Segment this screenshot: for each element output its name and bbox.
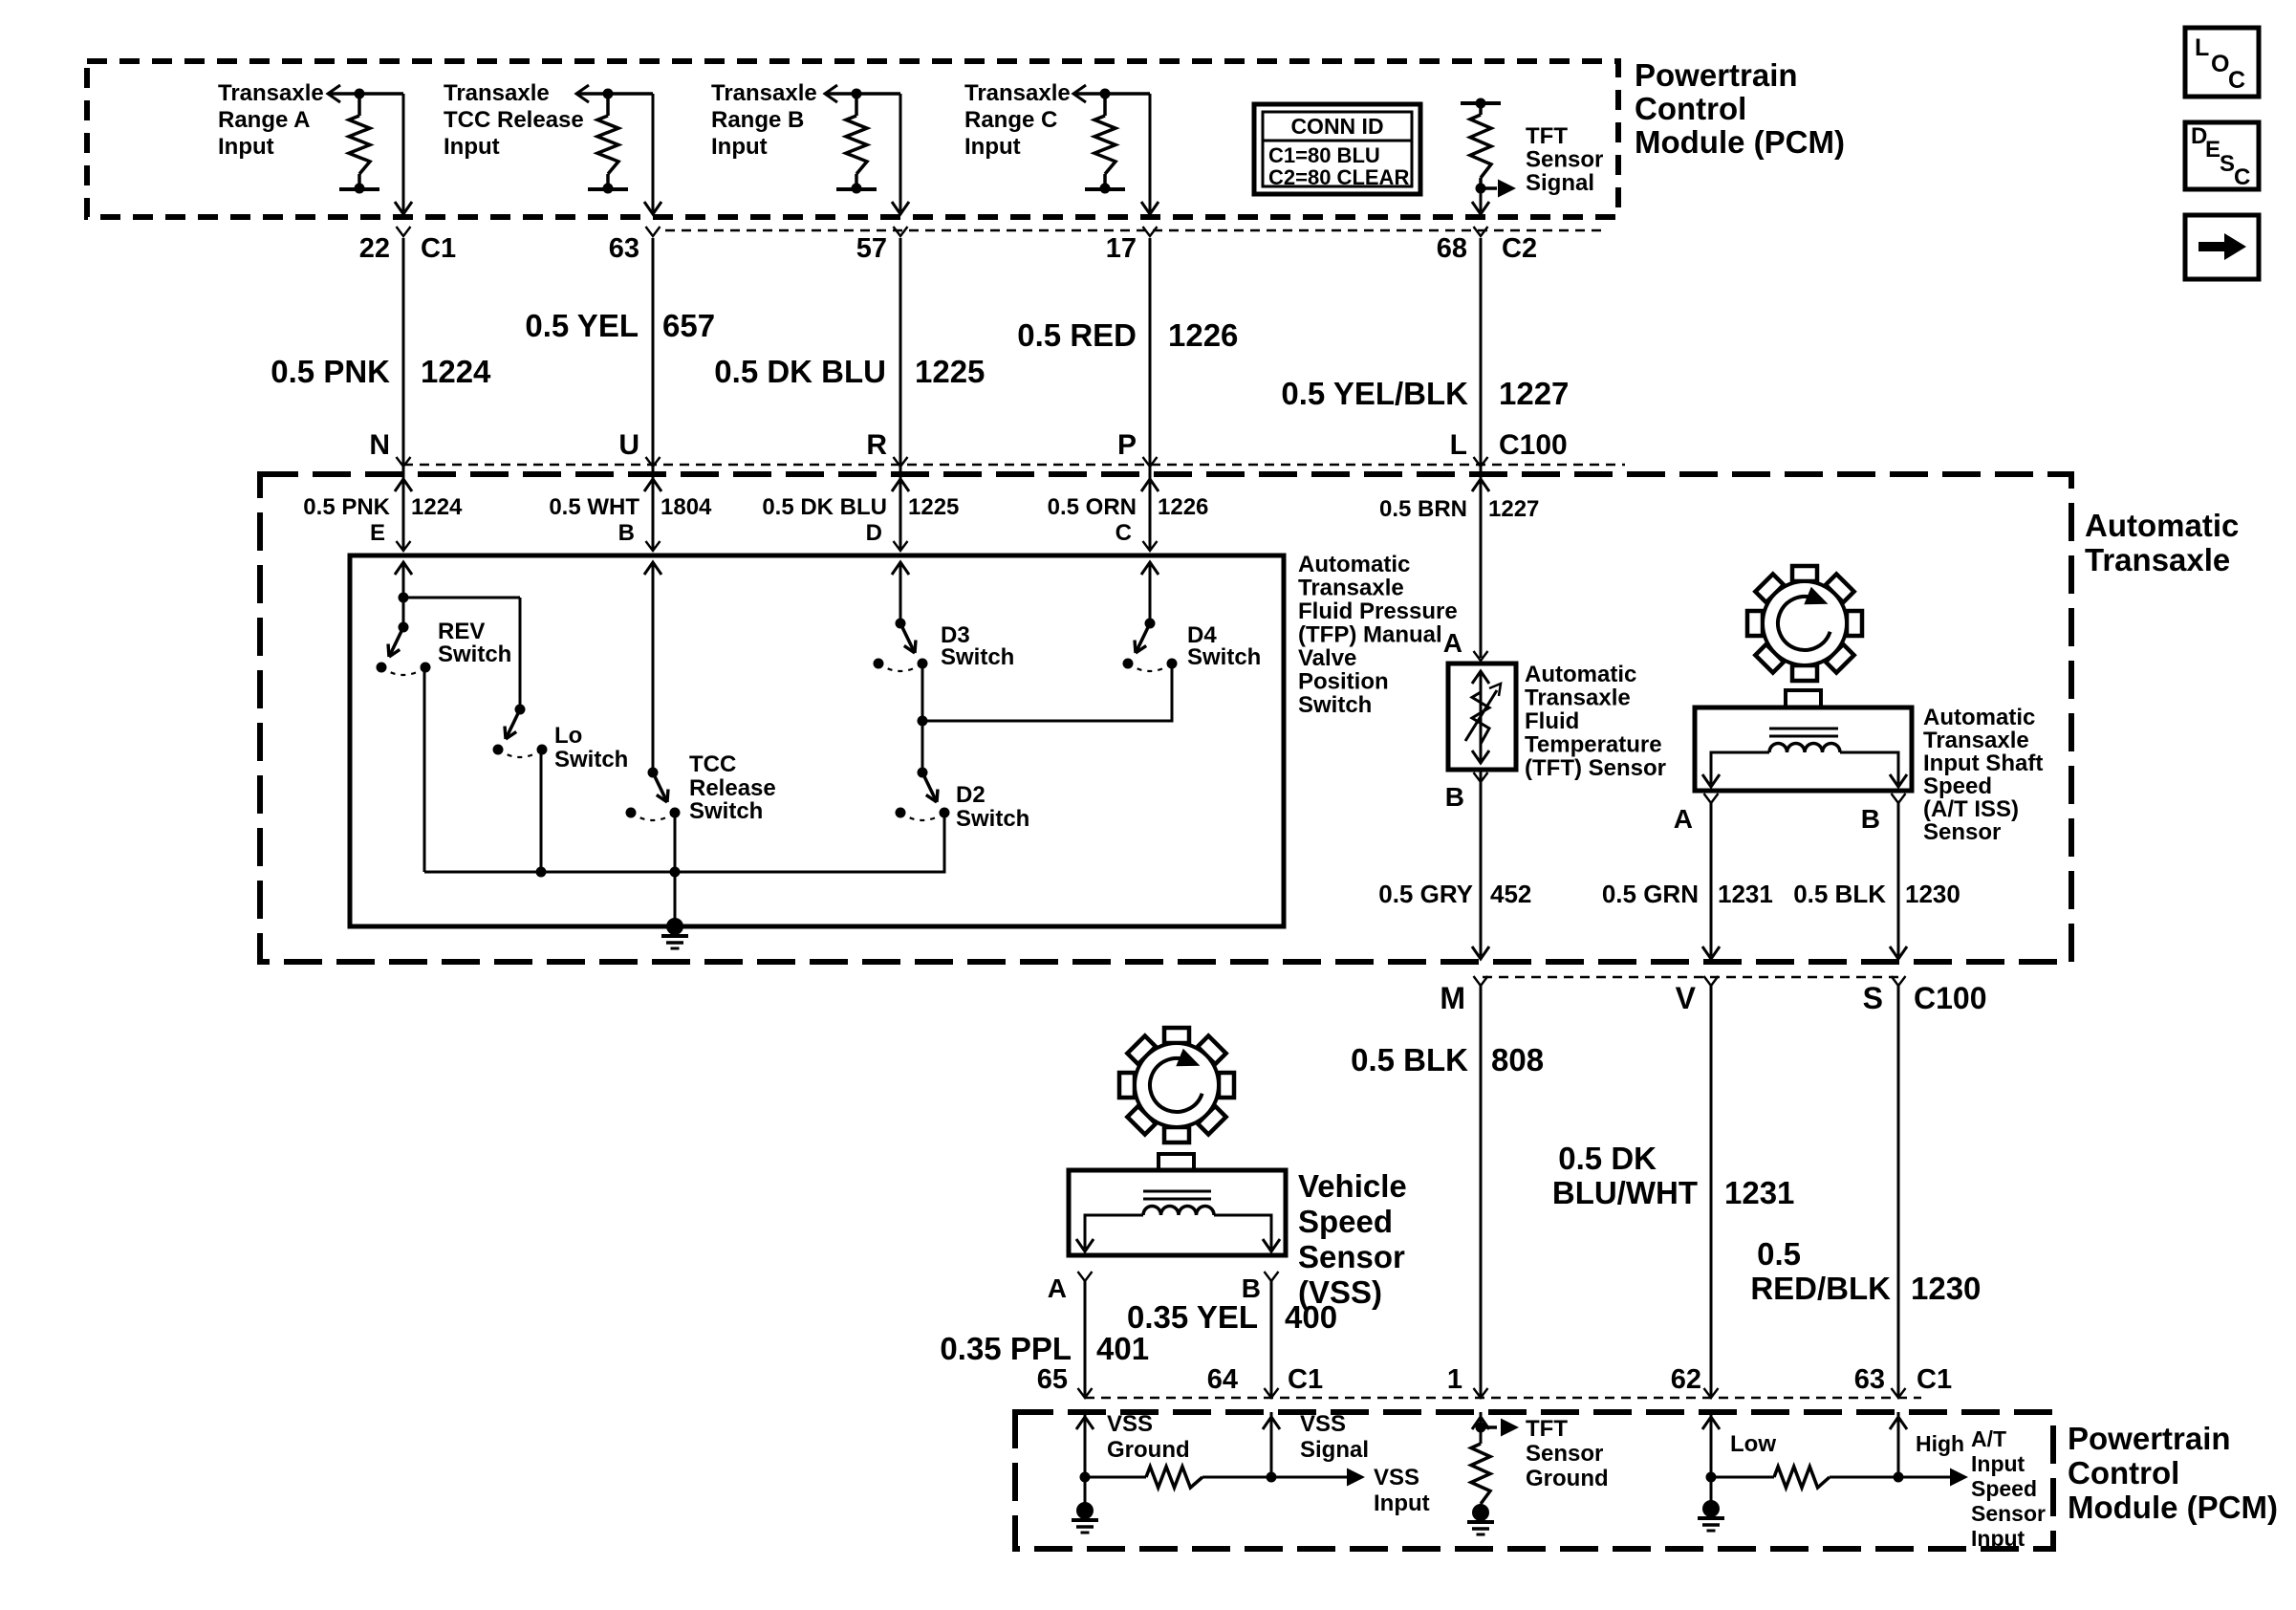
D4 output wire xyxy=(922,665,1172,721)
svg-text:D2: D2 xyxy=(956,782,986,808)
connector pin 17 xyxy=(1106,227,1158,264)
svg-text:U: U xyxy=(618,429,639,461)
TFT Sensor Ground label xyxy=(1526,1416,1609,1491)
svg-text:1227: 1227 xyxy=(1499,376,1569,411)
label 0.35 YEL 400 xyxy=(1127,1299,1337,1335)
svg-text:Fluid Pressure: Fluid Pressure xyxy=(1298,598,1458,624)
PCM bottom box label xyxy=(2068,1421,2278,1525)
REV switch xyxy=(377,622,431,676)
Low pin arrow xyxy=(1702,1412,1720,1477)
svg-text:Module (PCM): Module (PCM) xyxy=(1635,124,1845,160)
svg-text:0.5 DK BLU: 0.5 DK BLU xyxy=(714,354,886,389)
label 0.5 PNK 1224 xyxy=(303,494,463,520)
wire 1227 YEL/BLK xyxy=(1480,238,1483,465)
TFP pin E xyxy=(370,520,411,551)
label 0.5 BLK 808 xyxy=(1351,1042,1544,1077)
svg-text:Powertrain: Powertrain xyxy=(2068,1421,2231,1456)
svg-text:Input: Input xyxy=(1971,1526,2025,1551)
connector C1 bottom dashed line xyxy=(1085,1397,1921,1400)
wire pin 17 xyxy=(1141,94,1159,214)
svg-text:D: D xyxy=(866,520,882,546)
svg-text:Switch: Switch xyxy=(1298,692,1372,718)
TFP manual valve position switch box xyxy=(350,555,1284,926)
svg-text:0.5 GRY: 0.5 GRY xyxy=(1378,880,1473,908)
connector pin 64 xyxy=(1207,1364,1279,1398)
svg-text:B: B xyxy=(1861,804,1880,834)
svg-text:0.35 PPL: 0.35 PPL xyxy=(940,1331,1072,1366)
wire 452 GRY xyxy=(1472,770,1489,959)
svg-text:High: High xyxy=(1916,1431,1964,1456)
VSS gear xyxy=(1119,1028,1234,1142)
svg-text:E: E xyxy=(370,520,385,546)
VSS input resistor xyxy=(1080,1467,1277,1488)
connector pin 65 xyxy=(1037,1364,1093,1398)
svg-text:C: C xyxy=(2228,67,2245,94)
Transaxle Range B Input resistor label xyxy=(711,80,817,160)
Transaxle TCC Release Input resistor label xyxy=(444,80,584,160)
svg-text:Low: Low xyxy=(1730,1431,1776,1457)
wire into transaxle xyxy=(892,467,909,551)
wire 1230 RED/BLK xyxy=(1897,986,1900,1398)
svg-text:Range A: Range A xyxy=(218,107,310,133)
TFT sensor label xyxy=(1525,662,1666,781)
svg-text:(A/T ISS): (A/T ISS) xyxy=(1923,796,2019,822)
TFP pin C xyxy=(1116,520,1158,551)
svg-text:C: C xyxy=(1116,520,1132,546)
svg-text:Speed: Speed xyxy=(1298,1204,1393,1239)
svg-text:P: P xyxy=(1117,429,1137,461)
connector pin 63 xyxy=(1854,1364,1906,1398)
connector pin 62 xyxy=(1671,1364,1719,1398)
svg-text:0.5 YEL/BLK: 0.5 YEL/BLK xyxy=(1281,376,1468,411)
connector C100 pin L xyxy=(1450,429,1488,467)
D3 switch xyxy=(874,619,928,672)
svg-text:Module (PCM): Module (PCM) xyxy=(2068,1490,2278,1525)
label 0.5 GRN 1231 xyxy=(1602,880,1773,908)
svg-text:64: 64 xyxy=(1207,1364,1238,1395)
connector C2 label xyxy=(1502,233,1537,264)
PCM top box label xyxy=(1635,57,1845,160)
A/T Input Speed Sensor Input label xyxy=(1971,1426,2046,1551)
svg-text:Input: Input xyxy=(1374,1490,1430,1516)
TFP pin D arrow xyxy=(892,562,909,623)
svg-text:0.5 WHT: 0.5 WHT xyxy=(549,494,639,520)
svg-text:S: S xyxy=(2220,151,2235,177)
svg-text:Input: Input xyxy=(1971,1451,2025,1476)
svg-text:BLU/WHT: BLU/WHT xyxy=(1552,1175,1698,1210)
connector C100 pin N xyxy=(369,429,410,467)
wire into transaxle xyxy=(1472,467,1489,658)
label 0.5 BRN 1227 xyxy=(1379,496,1539,522)
connector pin 22 xyxy=(359,227,411,264)
svg-text:0.5 BLK: 0.5 BLK xyxy=(1351,1042,1468,1077)
REV switch feed junction xyxy=(399,593,521,710)
svg-text:1230: 1230 xyxy=(1905,880,1960,908)
TFT sensor ground resistor xyxy=(1471,1444,1490,1512)
TFP pin D xyxy=(866,520,908,551)
wire 401 PPL xyxy=(1084,1281,1087,1398)
svg-text:B: B xyxy=(618,520,635,546)
label 0.5 YEL 657 xyxy=(525,308,715,343)
svg-text:TFT: TFT xyxy=(1526,1416,1568,1442)
svg-text:Transaxle: Transaxle xyxy=(711,80,817,106)
svg-text:Sensor: Sensor xyxy=(1298,1239,1405,1274)
Transaxle Range B Input resistor xyxy=(825,85,900,194)
svg-text:0.5 RED: 0.5 RED xyxy=(1017,317,1137,353)
VSS ground symbol xyxy=(1072,1477,1098,1533)
label 0.5 RED/BLK 1230 xyxy=(1750,1236,1981,1306)
VSS sensor coil xyxy=(1076,1191,1280,1251)
Transaxle Range C Input resistor label xyxy=(964,80,1071,160)
label 0.5 ORN 1226 xyxy=(1048,494,1209,520)
svg-text:62: 62 xyxy=(1671,1364,1701,1395)
connector C100 bottom dashed line xyxy=(1483,976,1898,979)
svg-text:Speed: Speed xyxy=(1971,1476,2037,1501)
svg-text:Input: Input xyxy=(711,134,768,160)
label 0.5 GRY 452 xyxy=(1378,880,1531,908)
VSS pin B xyxy=(1242,1272,1279,1303)
svg-text:1: 1 xyxy=(1447,1364,1462,1395)
TFT sensor pin A xyxy=(1443,628,1488,661)
svg-text:Sensor: Sensor xyxy=(1923,819,2001,845)
svg-text:C2=80 CLEAR: C2=80 CLEAR xyxy=(1268,165,1409,189)
connector pin 1 xyxy=(1447,1364,1488,1398)
svg-text:V: V xyxy=(1676,981,1697,1015)
wire into transaxle xyxy=(395,467,412,551)
VSS Ground pin arrow xyxy=(1076,1412,1094,1477)
TFP pin B xyxy=(618,520,661,551)
svg-text:Sensor: Sensor xyxy=(1526,147,1603,173)
svg-text:Automatic: Automatic xyxy=(1923,705,2035,730)
svg-text:Input Shaft: Input Shaft xyxy=(1923,751,2043,776)
svg-text:TCC Release: TCC Release xyxy=(444,107,584,133)
wire 657 YEL xyxy=(652,238,655,465)
connector C1 label left xyxy=(1288,1364,1323,1395)
A/T ISS input arrow xyxy=(1898,1469,1968,1487)
D2 switch label xyxy=(956,782,1029,832)
connector C100 pin P xyxy=(1117,429,1158,467)
VSS sensor box xyxy=(1069,1154,1286,1255)
TFP pin B arrow xyxy=(644,562,661,772)
wire pin 57 xyxy=(892,94,909,214)
PCM bottom box xyxy=(1015,1412,2053,1549)
svg-text:L: L xyxy=(2195,34,2209,61)
svg-text:657: 657 xyxy=(662,308,715,343)
svg-text:M: M xyxy=(1440,981,1465,1015)
svg-text:S: S xyxy=(1863,981,1883,1015)
svg-text:Transaxle: Transaxle xyxy=(444,80,550,106)
svg-text:REV: REV xyxy=(438,619,485,644)
svg-text:Switch: Switch xyxy=(941,644,1014,670)
Automatic Transaxle box xyxy=(260,474,2071,962)
svg-text:0.5 DK: 0.5 DK xyxy=(1558,1141,1657,1176)
svg-text:Vehicle: Vehicle xyxy=(1298,1168,1407,1204)
REV switch label xyxy=(438,619,511,667)
svg-text:Sensor: Sensor xyxy=(1971,1501,2046,1526)
svg-text:0.5 BLK: 0.5 BLK xyxy=(1793,880,1886,908)
connector pin 68 xyxy=(1437,227,1488,264)
svg-text:TCC: TCC xyxy=(689,751,736,777)
svg-text:1231: 1231 xyxy=(1724,1175,1794,1210)
svg-text:Input: Input xyxy=(218,134,274,160)
wire 1225 DK BLU xyxy=(899,238,902,465)
svg-text:C1: C1 xyxy=(1917,1364,1952,1395)
TFT sensor element xyxy=(1465,671,1501,763)
svg-text:Switch: Switch xyxy=(438,642,511,667)
wire 1231 DK BLU/WHT xyxy=(1710,986,1713,1398)
svg-text:Transaxle: Transaxle xyxy=(1298,576,1404,601)
svg-text:Transaxle: Transaxle xyxy=(2085,542,2230,577)
svg-text:Ground: Ground xyxy=(1107,1437,1190,1463)
ISS pin B xyxy=(1861,794,1906,834)
TCC release switch label xyxy=(689,751,776,824)
A/T ISS sensor label xyxy=(1923,705,2043,845)
svg-text:L: L xyxy=(1450,429,1467,461)
svg-text:Automatic: Automatic xyxy=(2085,508,2239,543)
svg-text:452: 452 xyxy=(1490,880,1531,908)
svg-text:C100: C100 xyxy=(1499,429,1568,461)
svg-text:C: C xyxy=(2234,164,2250,190)
svg-text:R: R xyxy=(866,429,887,461)
Low label xyxy=(1730,1431,1776,1457)
svg-text:400: 400 xyxy=(1285,1299,1337,1335)
svg-text:VSS: VSS xyxy=(1300,1411,1346,1437)
label 0.35 PPL 401 xyxy=(940,1331,1149,1366)
label 0.5 WHT 1804 xyxy=(549,494,712,520)
svg-text:0.5 PNK: 0.5 PNK xyxy=(303,494,390,520)
svg-text:B: B xyxy=(1445,782,1464,812)
svg-text:Transaxle: Transaxle xyxy=(1525,685,1631,711)
TFP pin C arrow xyxy=(1141,562,1159,623)
Transaxle Range A Input resistor label xyxy=(218,80,324,160)
TFT sensor ground pin arrow xyxy=(1472,1412,1489,1444)
TFT sensor pin B xyxy=(1445,772,1488,812)
svg-text:O: O xyxy=(2211,51,2229,77)
svg-text:63: 63 xyxy=(609,233,639,264)
TCC release switch xyxy=(626,768,681,821)
Lo switch output wire xyxy=(536,750,547,878)
D2 output wire xyxy=(424,815,944,872)
svg-text:Release: Release xyxy=(689,775,776,801)
A/T ISS input resistor xyxy=(1706,1467,1904,1488)
connector C100 pin U xyxy=(618,429,660,467)
svg-text:Switch: Switch xyxy=(689,798,763,824)
svg-text:Speed: Speed xyxy=(1923,773,1992,799)
svg-text:0.5 BRN: 0.5 BRN xyxy=(1379,496,1467,522)
svg-text:1225: 1225 xyxy=(908,494,959,520)
svg-text:1231: 1231 xyxy=(1718,880,1773,908)
wire 1226 RED xyxy=(1149,238,1152,465)
svg-text:65: 65 xyxy=(1037,1364,1068,1395)
VSS sensor label xyxy=(1298,1168,1407,1310)
svg-text:401: 401 xyxy=(1096,1331,1149,1366)
D3 output wire xyxy=(918,665,928,772)
svg-text:63: 63 xyxy=(1854,1364,1885,1395)
svg-text:C1=80 BLU: C1=80 BLU xyxy=(1268,143,1380,167)
connector C2 dashed line xyxy=(665,229,1606,232)
VSS Signal pin arrow xyxy=(1263,1412,1280,1477)
svg-text:Input: Input xyxy=(964,134,1021,160)
svg-text:1226: 1226 xyxy=(1158,494,1208,520)
svg-text:0.5 ORN: 0.5 ORN xyxy=(1048,494,1137,520)
svg-text:1230: 1230 xyxy=(1911,1271,1981,1306)
connector C100 pin S xyxy=(1863,976,1906,1015)
svg-text:0.5: 0.5 xyxy=(1757,1236,1801,1272)
svg-text:CONN ID: CONN ID xyxy=(1290,114,1383,139)
svg-text:22: 22 xyxy=(359,233,390,264)
svg-text:808: 808 xyxy=(1491,1042,1544,1077)
A/T ISS sensor box xyxy=(1695,690,1912,791)
svg-text:1224: 1224 xyxy=(411,494,463,520)
svg-text:Sensor: Sensor xyxy=(1526,1441,1603,1467)
svg-text:TFT: TFT xyxy=(1526,123,1568,149)
svg-text:0.35 YEL: 0.35 YEL xyxy=(1127,1299,1258,1335)
Low ground symbol xyxy=(1698,1477,1724,1531)
label 0.5 RED 1226 xyxy=(1017,317,1238,353)
D4 switch xyxy=(1123,619,1178,672)
REV switch output wire xyxy=(423,667,426,872)
forward arrow icon xyxy=(2185,215,2259,279)
svg-text:Automatic: Automatic xyxy=(1525,662,1636,687)
svg-text:Powertrain: Powertrain xyxy=(1635,57,1798,93)
svg-text:Fluid: Fluid xyxy=(1525,708,1579,734)
svg-text:A: A xyxy=(1048,1273,1067,1303)
svg-text:0.5 GRN: 0.5 GRN xyxy=(1602,880,1699,908)
High label xyxy=(1916,1431,1964,1456)
svg-text:RED/BLK: RED/BLK xyxy=(1750,1271,1891,1306)
TFT Sensor Signal resistor xyxy=(1461,98,1501,194)
wire pin 22 xyxy=(395,94,412,214)
wire pin 63 xyxy=(644,94,661,214)
svg-text:Transaxle: Transaxle xyxy=(1923,728,2029,753)
Lo switch xyxy=(493,705,548,758)
DESC icon xyxy=(2185,122,2259,190)
TFT sensor ground arrow xyxy=(1476,1419,1520,1437)
svg-text:E: E xyxy=(2205,137,2220,163)
svg-text:C1: C1 xyxy=(1288,1364,1323,1395)
Transaxle TCC Release Input resistor xyxy=(576,85,653,194)
svg-text:Switch: Switch xyxy=(554,747,628,772)
Transaxle Range A Input resistor xyxy=(328,85,403,194)
label 0.5 DK BLU/WHT 1231 xyxy=(1552,1141,1795,1210)
VSS Ground label xyxy=(1107,1411,1190,1463)
svg-text:Transaxle: Transaxle xyxy=(964,80,1071,106)
TFT Sensor Signal label xyxy=(1526,123,1603,196)
D3 switch label xyxy=(941,622,1014,670)
wire 400 YEL xyxy=(1270,1281,1273,1398)
svg-text:Signal: Signal xyxy=(1300,1437,1369,1463)
wire into transaxle xyxy=(644,467,661,551)
svg-text:Switch: Switch xyxy=(1187,644,1261,670)
label 0.5 PNK 1224 xyxy=(271,354,491,389)
TFT Sensor Signal arrow xyxy=(1481,180,1516,198)
svg-text:Input: Input xyxy=(444,134,500,160)
connector C100 label xyxy=(1499,429,1568,461)
Automatic Transaxle label xyxy=(2085,508,2239,577)
svg-text:0.5 DK BLU: 0.5 DK BLU xyxy=(762,494,887,520)
VSS Signal label xyxy=(1300,1411,1369,1463)
wire 1230 BLK xyxy=(1890,803,1907,959)
label 0.5 YEL/BLK 1227 xyxy=(1281,376,1569,411)
CONN ID table xyxy=(1254,104,1420,194)
svg-text:Range C: Range C xyxy=(964,107,1057,133)
svg-text:1226: 1226 xyxy=(1168,317,1238,353)
TFP pin E arrow xyxy=(395,562,412,627)
LOC icon xyxy=(2185,28,2259,97)
svg-text:Ground: Ground xyxy=(1526,1466,1609,1491)
wire 808 BLK xyxy=(1480,986,1483,1398)
label 0.5 DK BLU 1225 xyxy=(762,494,959,520)
A/T ISS gear xyxy=(1747,566,1862,681)
svg-text:1225: 1225 xyxy=(915,354,985,389)
Transaxle Range C Input resistor xyxy=(1073,85,1150,194)
svg-text:0.5 PNK: 0.5 PNK xyxy=(271,354,390,389)
svg-text:68: 68 xyxy=(1437,233,1467,264)
TFP switch label xyxy=(1298,552,1458,718)
connector C1 label right xyxy=(1917,1364,1952,1395)
connector C1 label xyxy=(421,233,456,264)
svg-text:Control: Control xyxy=(1635,91,1746,126)
svg-text:A: A xyxy=(1674,804,1693,834)
VSS Input label xyxy=(1374,1465,1430,1516)
label 0.5 BLK 1230 xyxy=(1793,880,1960,908)
svg-text:Position: Position xyxy=(1298,669,1389,695)
svg-text:C100: C100 xyxy=(1914,981,1987,1015)
wire 1231 GRN xyxy=(1702,803,1720,959)
connector C100 pin R xyxy=(866,429,907,467)
svg-text:N: N xyxy=(369,429,390,461)
connector C100 pin V xyxy=(1676,976,1719,1015)
A/T ISS sensor coil xyxy=(1702,729,1907,787)
svg-text:0.5 YEL: 0.5 YEL xyxy=(525,308,639,343)
svg-text:1227: 1227 xyxy=(1488,496,1539,522)
svg-text:Valve: Valve xyxy=(1298,645,1356,671)
svg-text:Switch: Switch xyxy=(956,806,1029,832)
svg-text:VSS: VSS xyxy=(1107,1411,1153,1437)
TFT ground symbol xyxy=(1467,1504,1494,1534)
connector pin 57 xyxy=(856,227,908,264)
TFT sensor box xyxy=(1448,664,1516,770)
svg-text:Lo: Lo xyxy=(554,723,582,749)
svg-text:Temperature: Temperature xyxy=(1525,732,1662,758)
svg-text:Transaxle: Transaxle xyxy=(218,80,324,106)
svg-text:Range B: Range B xyxy=(711,107,804,133)
svg-text:57: 57 xyxy=(856,233,887,264)
connector C100 pin M xyxy=(1440,976,1487,1015)
connector C100 dashed line xyxy=(403,464,1625,467)
svg-text:Automatic: Automatic xyxy=(1298,552,1410,577)
wire pin 68 xyxy=(1472,188,1489,214)
svg-text:A: A xyxy=(1443,628,1462,658)
svg-text:C1: C1 xyxy=(421,233,456,264)
wire into transaxle xyxy=(1141,467,1159,551)
D2 switch xyxy=(896,768,950,821)
VSS pin A xyxy=(1048,1272,1093,1303)
svg-text:(TFT) Sensor: (TFT) Sensor xyxy=(1525,755,1666,781)
svg-text:17: 17 xyxy=(1106,233,1137,264)
D4 switch label xyxy=(1187,622,1261,670)
svg-text:VSS: VSS xyxy=(1374,1465,1419,1490)
wire 1224 PNK xyxy=(402,238,405,465)
connector pin 63 xyxy=(609,227,661,264)
TFP ground xyxy=(661,918,688,948)
ISS pin A xyxy=(1674,794,1719,834)
svg-text:Control: Control xyxy=(2068,1455,2179,1490)
svg-text:1804: 1804 xyxy=(661,494,712,520)
svg-text:A/T: A/T xyxy=(1971,1426,2006,1451)
Lo switch label xyxy=(554,723,628,772)
connector C100 bottom label xyxy=(1914,981,1987,1015)
